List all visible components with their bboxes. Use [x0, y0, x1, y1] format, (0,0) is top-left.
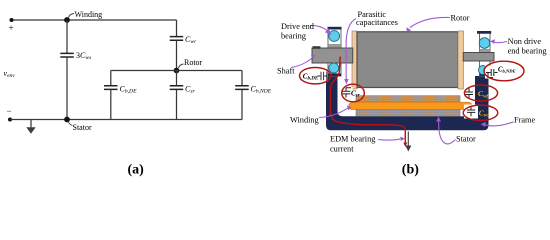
terminal minus dot — [8, 118, 12, 122]
capacitor symbol Cws — [464, 105, 478, 119]
capacitor Cwr — [170, 37, 184, 41]
shaft left stub — [312, 48, 353, 63]
rotor end ring right (tan) — [458, 31, 464, 89]
wire top (winding rail) — [12, 19, 177, 21]
wire mid branch lower — [176, 90, 178, 120]
wire top right drop — [176, 20, 178, 36]
wire Cwr to rotor node — [176, 40, 178, 70]
svg-text:Frame: Frame — [514, 116, 536, 125]
svg-text:capacitances: capacitances — [356, 18, 398, 27]
wire left branch lower — [110, 90, 112, 120]
leader: drive end bearing — [310, 25, 327, 30]
svg-text:Stator: Stator — [73, 123, 92, 132]
leader: parasitic capacitances (down arrow) — [346, 19, 356, 81]
shaft right stub — [463, 53, 494, 62]
NDE bearing housing — [480, 32, 491, 76]
svg-text:Drive end: Drive end — [281, 22, 315, 31]
svg-text:Rotor: Rotor — [451, 14, 470, 23]
wire left branch upper — [110, 71, 112, 86]
wire winding branch upper — [66, 20, 68, 53]
svg-text:Shaft: Shaft — [277, 66, 295, 75]
DE bearing housing — [328, 28, 341, 76]
stator lamination bar top (hatched) — [356, 96, 460, 102]
svg-text:Non drive: Non drive — [508, 37, 542, 46]
leader: non drive end bearing — [494, 42, 508, 43]
red ellipse around Csr — [342, 84, 365, 102]
svg-text:Winding: Winding — [75, 10, 103, 19]
svg-text:bearing: bearing — [281, 31, 306, 40]
stator lamination bar bottom (hatched) — [356, 109, 460, 116]
frame (stator housing, navy U) — [326, 76, 489, 130]
red ellipse around Cwf — [464, 85, 497, 101]
leader winding — [69, 14, 75, 18]
svg-text:Stator: Stator — [456, 134, 476, 143]
keyway notch — [313, 46, 321, 49]
wire rotor rail — [111, 70, 242, 72]
svg-text:EDM bearing: EDM bearing — [330, 135, 375, 144]
terminal plus dot — [10, 18, 14, 22]
leader: shaft — [292, 59, 312, 68]
capacitor symbol Cb,DE — [317, 70, 328, 82]
leader: frame — [485, 122, 514, 126]
leader: EDM bearing current — [378, 139, 401, 140]
node Winding — [64, 17, 70, 23]
rotor block — [357, 32, 458, 88]
rotor end ring left (tan) — [352, 31, 357, 89]
leader: stator label — [439, 122, 456, 144]
wire right branch upper — [241, 71, 243, 86]
capacitor symbol Cb,NDE — [485, 66, 498, 79]
wire mid branch upper — [176, 71, 178, 86]
svg-text:Rotor: Rotor — [184, 58, 203, 67]
leader stator — [69, 122, 73, 126]
EDM black arrow — [407, 132, 409, 147]
leader: rotor — [410, 17, 450, 27]
wire right branch lower — [241, 90, 243, 120]
DE bearing ball lower — [329, 63, 339, 73]
svg-text:(b): (b) — [402, 162, 419, 177]
svg-text:current: current — [330, 145, 354, 154]
capacitor symbol Cwf — [465, 87, 475, 99]
capacitor Cb,DE — [104, 86, 118, 90]
winding (orange bar) — [349, 102, 472, 109]
node Stator — [64, 117, 70, 123]
capacitor Cb,NDE — [235, 86, 249, 90]
NDE bearing ball upper — [479, 38, 490, 49]
capacitor 3Cws — [60, 53, 74, 57]
ground — [30, 120, 32, 128]
wire winding branch lower — [66, 57, 68, 119]
EDM current path (red) — [330, 57, 405, 144]
svg-text:end bearing: end bearing — [508, 46, 547, 55]
svg-text:Winding: Winding — [290, 115, 319, 124]
wire bottom rail — [10, 119, 242, 121]
red ellipse around Cws — [463, 105, 498, 120]
svg-text:(a): (a) — [128, 162, 145, 177]
svg-text:+: + — [9, 23, 14, 33]
DE bearing ball upper — [329, 31, 340, 42]
red ellipse around Cb,NDE — [484, 61, 524, 81]
leader: winding — [319, 108, 348, 117]
capacitor symbol Csr (b) — [341, 87, 353, 99]
node Rotor — [174, 68, 180, 74]
capacitor Csr — [170, 86, 184, 90]
NDE bearing ball lower — [479, 66, 488, 75]
leader rotor — [179, 64, 184, 68]
svg-text:−: − — [7, 106, 12, 116]
red ellipse around Cb,DE — [300, 68, 331, 84]
